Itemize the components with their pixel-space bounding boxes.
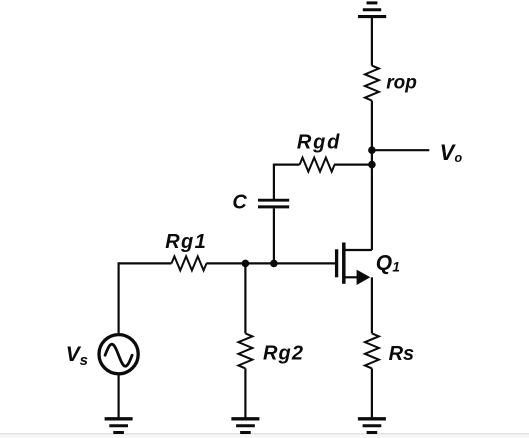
svg-text:o: o (455, 151, 463, 165)
resistor Rg1 (165, 231, 207, 271)
resistor Rg2 (238, 333, 304, 368)
node Vo label (440, 140, 463, 165)
capacitor C (232, 192, 289, 214)
ground (Rg2) (231, 419, 259, 433)
svg-text:Rgd: Rgd (297, 131, 341, 153)
node Vo junction dot (368, 146, 376, 154)
wire: cap bottom to gate node (273, 208, 275, 263)
wire: source to Rs (371, 277, 373, 333)
transistor Q1 (337, 243, 400, 286)
node Rgd junction dot (368, 161, 376, 169)
wire: Rg2 to ground (244, 368, 246, 418)
wire: Vs to ground (117, 374, 119, 418)
svg-text:Q: Q (376, 251, 392, 274)
wire: Vo stub (372, 149, 429, 151)
svg-text:Rg1: Rg1 (165, 231, 207, 253)
resistor Rs (365, 333, 414, 368)
svg-text:s: s (80, 352, 88, 369)
wire: rop to drain (through Vo node) (371, 101, 373, 250)
source Vs (66, 335, 138, 374)
wire: Rgd left segment to cap branch (274, 165, 300, 200)
ground (Rs) (358, 419, 386, 433)
wire: Rg2 top (244, 263, 246, 333)
wire: Rgd right segment (334, 164, 372, 166)
wire: gate net horizontal (206, 262, 335, 264)
svg-text:rop: rop (386, 73, 417, 94)
resistor rop (365, 66, 417, 101)
wire: Rg1 left + down to Vs (119, 263, 172, 333)
wire: Rs to ground (371, 368, 373, 418)
svg-text:Rg2: Rg2 (263, 343, 304, 365)
node gate junction dot (C) (270, 260, 278, 268)
ground (Vs) (105, 419, 133, 433)
svg-text:C: C (232, 192, 247, 214)
resistor Rgd (297, 131, 341, 171)
svg-text:Rs: Rs (389, 343, 415, 365)
node gate junction dot (Rg2) (242, 260, 250, 268)
svg-text:1: 1 (392, 259, 400, 274)
wire: rail to rop (371, 17, 373, 66)
power rail VDD symbol (358, 3, 386, 17)
page bottom rule (0, 433, 529, 435)
